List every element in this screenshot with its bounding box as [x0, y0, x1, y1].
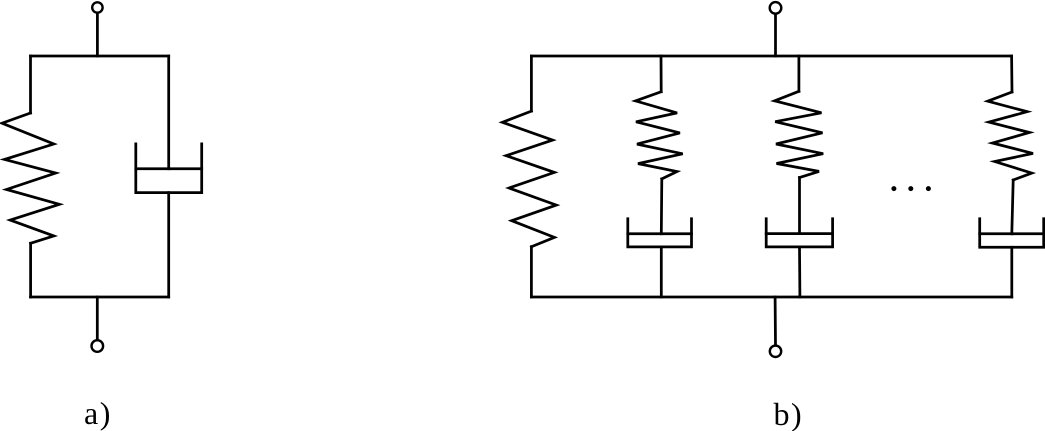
spring K (model a) — [2, 113, 59, 243]
damper cylinder cup C2 (branch 2, model b) — [628, 219, 692, 247]
wire (damper rod lower, model a) — [167, 193, 170, 297]
terminal T1 (top of model a) — [92, 2, 102, 12]
wire (top stem, model a) — [96, 13, 99, 56]
wire (branch 2 lower, model b) — [660, 247, 663, 297]
terminal T3 (top of model b) — [770, 2, 782, 14]
wire (bottom bus bar, model b) — [531, 296, 1011, 299]
terminal T4 (bottom of model b) — [770, 346, 781, 357]
wire (branch 2 upper, model b) — [660, 56, 663, 92]
damper cylinder cup Cn (branch n, model b) — [980, 219, 1044, 248]
damper cylinder cup (model a) — [136, 144, 202, 193]
wire (branch n lower, model b) — [1010, 247, 1013, 297]
wire (branch n upper, model b) — [1010, 56, 1013, 92]
spring K1 (branch 1, model b) — [502, 111, 556, 247]
damper piston plate (model a) — [136, 167, 202, 170]
ellipsis dots (continuation, model b) — [891, 186, 931, 191]
wire (branch 2 rod, model b) — [660, 179, 663, 234]
damper piston plate C3 (branch 3, model b) — [766, 232, 832, 235]
terminal T2 (bottom of model a) — [92, 340, 104, 352]
wire (top bus bar, model b) — [531, 55, 1011, 58]
wire (bottom bar, model a) — [31, 296, 169, 299]
wire (branch 3 lower, model b) — [798, 247, 801, 297]
label a) — [84, 397, 112, 429]
wire (damper rod upper, model a) — [167, 56, 170, 169]
spring Kn (branch n, model b) — [988, 92, 1033, 180]
wire (left lower, model a) — [29, 243, 32, 297]
wire (branch n rod, model b) — [1012, 180, 1013, 234]
spring K2 (branch 2, model b) — [636, 92, 683, 179]
wire (branch 1 upper, model b) — [530, 56, 533, 111]
wire (bottom stem, model a) — [96, 297, 99, 340]
damper piston plate C2 (branch 2, model b) — [628, 232, 692, 235]
spring K3 (branch 3, model b) — [775, 91, 824, 177]
damper piston plate Cn (branch n, model b) — [980, 232, 1044, 235]
wire (bottom stem, model b) — [774, 297, 777, 345]
damper cylinder cup C3 (branch 3, model b) — [766, 219, 832, 247]
wire (top stem, model b) — [774, 14, 777, 56]
label b) — [774, 398, 804, 430]
wire (branch 3 upper, model b) — [798, 56, 801, 91]
wire (branch 1 lower, model b) — [530, 247, 533, 297]
wire (top bar, model a) — [31, 55, 169, 58]
wire (branch 3 rod, model b) — [798, 178, 801, 234]
wire (left upper, model a) — [29, 56, 32, 113]
